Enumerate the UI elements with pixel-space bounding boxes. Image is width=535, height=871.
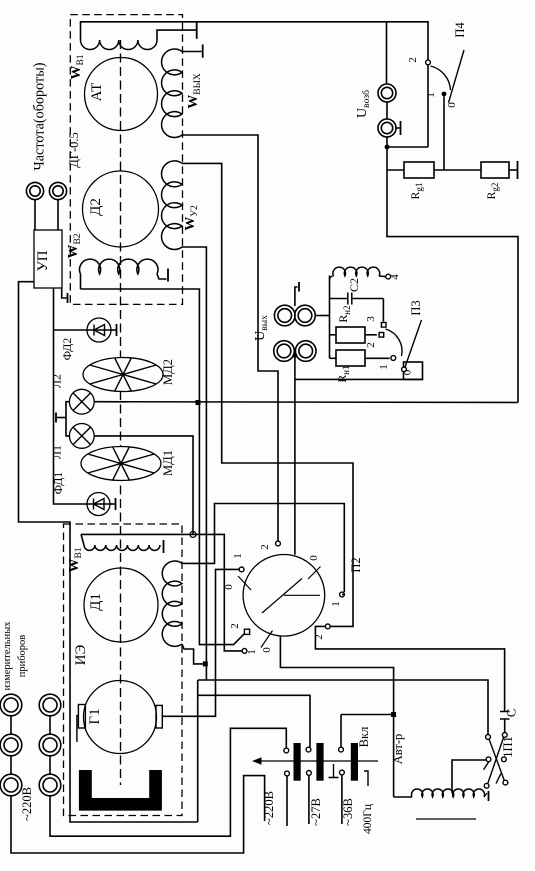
- svg-text:~220В: ~220В: [20, 787, 34, 821]
- wire branch to 27V winding top lead: [198, 695, 310, 747]
- terminal Uvozb top: [378, 84, 396, 102]
- wire FD1 cathode lead: [110, 503, 115, 505]
- wire bus to switch P1 contact: [198, 680, 488, 734]
- contact 1 of P4 (pivot): [442, 92, 447, 97]
- wire meter col2 to 220V winding top: [50, 728, 286, 836]
- dashed enclosure IE: [64, 524, 183, 816]
- switch P2 rotor marks: [262, 579, 302, 614]
- machine G1 tachogenerator: [84, 681, 157, 754]
- wire V2: W_B2 to P2 lower-left contact 2: [81, 289, 245, 645]
- wire meter col1 link a: [10, 716, 12, 734]
- switch P1 short stroke a: [484, 761, 490, 770]
- winding of D1 armature: [162, 561, 182, 646]
- junction L2 wire / V2: [196, 400, 201, 405]
- wire load return bus y379: [295, 378, 423, 380]
- wire bus to Rn1: [330, 357, 337, 359]
- switch P4 wiper: [449, 50, 465, 103]
- contact 4 of P3: [386, 274, 391, 279]
- wire 36V bottom stub: [341, 775, 343, 824]
- transformer winding 36V: [351, 743, 358, 781]
- switch P2 body circle: [243, 555, 325, 637]
- wire lamp ground stub: [57, 417, 66, 419]
- brush holder bracket: [77, 716, 79, 743]
- terminal Uvyh bottom right: [295, 341, 316, 362]
- wire Uvyh ground stub: [295, 287, 298, 306]
- wire choke to contact 4: [379, 275, 386, 278]
- wire terminal1 to UP: [34, 200, 36, 230]
- contact 1 of P3: [391, 356, 396, 361]
- wire A: W_vyh bottom to P2 contact 2 top: [182, 135, 278, 541]
- terminal Uvyh bottom left: [274, 341, 295, 362]
- modulator disc MD2: [83, 358, 163, 392]
- wire top bus to Uvozb top: [386, 22, 388, 84]
- svg-text:2: 2: [407, 57, 419, 63]
- wire autotransformer tap to P1 middle contact: [452, 760, 487, 793]
- lamp L2: [69, 389, 94, 414]
- wire Uvozb ground stub: [396, 127, 400, 129]
- wire UP left to bottom bus 822: [19, 282, 198, 822]
- wire Rg1 to Rg2: [434, 169, 481, 171]
- wire meter col1 to mains plug: [11, 776, 265, 853]
- contact P1 middle-left: [486, 757, 491, 762]
- terminal bar FD2 cathode: [116, 324, 118, 336]
- wire W_B1 right end: [157, 30, 197, 40]
- switch P4 travel arc: [431, 66, 451, 90]
- contact P1 top-left: [486, 735, 491, 740]
- wire W_B1 top bus to P4 contact 2: [81, 22, 429, 60]
- winding W_u2: [162, 161, 182, 250]
- permanent magnet stator of IE: [79, 770, 162, 811]
- terminal bar Uvozb: [400, 121, 402, 135]
- svg-text:С: С: [505, 709, 519, 717]
- terminal bar Rg2 end: [517, 161, 519, 179]
- svg-text:~220В: ~220В: [262, 791, 276, 825]
- wire Rg bus left: [387, 169, 404, 171]
- terminal meter 2-2: [39, 734, 61, 756]
- wire W_B2 right end: [157, 274, 167, 279]
- machine AT (autotransformer rotor): [85, 58, 158, 131]
- machine D2: [83, 171, 159, 247]
- shaft center line (dash-dot): [120, 40, 122, 785]
- stroke position 0 upper-right of P2: [308, 567, 321, 580]
- svg-text:3: 3: [365, 316, 377, 322]
- photodiode FD1: [87, 493, 110, 516]
- wire W_u2 top to P2 right contact 2: [182, 163, 353, 626]
- ground bar lamps: [55, 413, 57, 423]
- contact P1 bottom-left: [484, 783, 489, 788]
- wire meter col2 link a: [49, 716, 51, 734]
- wire Uvozb minus big loop right side: [387, 137, 518, 403]
- svg-text:4: 4: [389, 274, 401, 280]
- wire W_vyh top end: [182, 51, 202, 53]
- svg-text:ДГ-0.5: ДГ-0.5: [67, 132, 81, 168]
- wire Rn1 to contact 1: [365, 357, 390, 359]
- switch P1 short stroke b: [496, 774, 501, 784]
- svg-text:ФД1: ФД1: [51, 472, 65, 495]
- lead 36V top: [339, 747, 344, 752]
- contact 0 of P3: [402, 367, 407, 372]
- svg-text:АТ: АТ: [89, 83, 105, 102]
- svg-text:1: 1: [378, 364, 390, 370]
- wire P4 pivot to Rg bus: [443, 97, 445, 171]
- svg-text:П2: П2: [349, 557, 363, 572]
- svg-text:Авт-р: Авт-р: [391, 734, 405, 765]
- svg-text:измерительных: измерительных: [2, 621, 13, 691]
- wire C to P1 contact: [504, 719, 506, 732]
- svg-text:~36В: ~36В: [341, 798, 355, 826]
- winding W_vyh: [162, 49, 182, 137]
- transformer winding 27V: [316, 743, 323, 781]
- lead 220V top: [284, 748, 289, 753]
- wire G1 right brush to P2 left contact 1: [162, 569, 239, 716]
- wire lamp common bracket: [66, 402, 69, 436]
- svg-text:0: 0: [308, 555, 320, 561]
- wire D1 coil bottom to junction: [182, 644, 203, 664]
- junction Uvyh bottom terminals: [293, 353, 298, 358]
- resistor Rn1: [336, 350, 365, 366]
- wire FD2 cathode lead: [111, 329, 116, 331]
- lead 36V bottom: [340, 770, 345, 775]
- lamp L1: [69, 424, 94, 449]
- brush right of G1: [156, 705, 162, 728]
- wire P2 contact 2 to capacitor C: [315, 626, 504, 711]
- contact P1 middle-right: [502, 757, 507, 762]
- wire meter col2 link b: [49, 756, 51, 774]
- terminal bar W_vyh end: [202, 45, 204, 58]
- wire C2 to contact 3: [352, 298, 384, 300]
- ground bar Uvyh: [298, 282, 300, 292]
- winding W_B2 of DG-0.5: [80, 259, 158, 274]
- capacitor C2: [347, 293, 349, 305]
- contact 1 left of P2: [239, 567, 244, 572]
- contact 2 of P4: [426, 60, 431, 65]
- svg-text:~27В: ~27В: [309, 798, 323, 826]
- lead 220V bottom: [285, 771, 290, 776]
- svg-text:Г1: Г1: [87, 708, 103, 724]
- wire meter col1 link b: [10, 756, 12, 774]
- svg-text:0: 0: [446, 102, 458, 108]
- svg-text:0: 0: [402, 369, 414, 375]
- wire W_B2 left end down: [80, 274, 82, 289]
- wire branch to FD2 anode: [54, 329, 88, 331]
- contact 3 of P3: [381, 323, 386, 328]
- winding W_B1 of IE: [84, 545, 160, 550]
- svg-text:Л1: Л1: [50, 445, 64, 459]
- svg-text:УП: УП: [35, 250, 51, 271]
- svg-text:1: 1: [232, 553, 244, 559]
- svg-text:МД2: МД2: [161, 359, 175, 385]
- terminal bar IE W_B1 end: [163, 540, 165, 553]
- wire L1 right to V1 down: [94, 436, 193, 535]
- svg-text:2: 2: [229, 623, 241, 629]
- terminal meter 1-1: [0, 694, 22, 716]
- resistor Rg2: [481, 162, 509, 178]
- lead 27V top: [306, 747, 311, 752]
- wire 36V top to Vkl junction: [340, 715, 342, 748]
- terminal bar W_B1 end: [196, 22, 198, 39]
- capacitor C: [500, 711, 510, 713]
- terminal frequency 2: [49, 182, 66, 199]
- wire D1 coil top to P2 right contact 1: [182, 504, 344, 593]
- terminal bar FD1 cathode: [115, 498, 117, 510]
- wire P2 rotor bottom to autotransformer: [280, 636, 393, 798]
- svg-text:приборов: приборов: [17, 635, 28, 678]
- svg-text:МД1: МД1: [161, 450, 175, 476]
- svg-text:ИЭ: ИЭ: [73, 645, 89, 666]
- wire Uvyh top right to load bus: [315, 315, 329, 317]
- svg-text:С2: С2: [347, 278, 361, 292]
- wire to C2: [330, 298, 348, 300]
- svg-text:1: 1: [330, 601, 342, 607]
- autotransformer core line: [416, 818, 476, 820]
- box around P3 contact 0: [404, 362, 423, 379]
- contact 2 lower right of P2: [325, 624, 330, 629]
- junction Uvozb minus: [385, 145, 390, 150]
- svg-text:1: 1: [246, 649, 258, 655]
- wire Rn2 to contact 2: [365, 334, 377, 336]
- svg-text:Д1: Д1: [88, 593, 104, 611]
- contact 1 lower left of P2: [242, 649, 247, 654]
- wire 220V bottom stub: [286, 776, 288, 826]
- contact 2 top of P2: [276, 541, 281, 546]
- stroke position 0 bottom of P2: [261, 631, 273, 648]
- contact P1 bottom-right: [503, 780, 508, 785]
- terminal meter 2-3: [39, 774, 61, 796]
- svg-text:Частота(обороты): Частота(обороты): [32, 62, 48, 170]
- wire coil hook to top wire: [81, 534, 84, 545]
- contact 2 of P3: [379, 333, 384, 338]
- svg-text:Вкл: Вкл: [357, 727, 371, 748]
- modulator disc MD1: [81, 447, 161, 481]
- svg-text:2: 2: [259, 544, 271, 550]
- brush left of G1: [78, 705, 85, 729]
- contact 1 right of P2: [340, 592, 345, 597]
- svg-text:П3: П3: [409, 300, 423, 315]
- svg-text:0: 0: [223, 584, 235, 590]
- ground tick 27V/36V: [333, 764, 335, 777]
- lead 27V bottom: [307, 771, 312, 776]
- transformer winding 220V: [294, 743, 301, 781]
- switch P1 blade b: [488, 737, 504, 784]
- terminal bar UP chassis: [67, 293, 69, 303]
- svg-text:Л2: Л2: [50, 374, 64, 388]
- svg-text:0: 0: [261, 647, 273, 653]
- wire UP bottom to photodiode FD1 anode: [54, 288, 88, 504]
- wire between Uvozb terminals: [386, 102, 388, 119]
- stroke position 0 upper-left of P2: [238, 576, 251, 590]
- junction D1 bottom / V3: [203, 661, 208, 666]
- autotransformer right end hook: [484, 793, 487, 797]
- wire to junction Vkl: [341, 714, 394, 716]
- dashed enclosure DG-0.5: [70, 15, 182, 305]
- resistor Rg1: [404, 162, 434, 178]
- lead hook 400Hz: [364, 771, 368, 786]
- wire up to P4 contact 2: [427, 65, 429, 147]
- wire terminal2 to UP: [57, 200, 59, 230]
- inductor choke near C2: [333, 267, 380, 276]
- svg-text:П4: П4: [453, 22, 467, 38]
- wire load network left bus: [329, 276, 331, 359]
- contact 2 lower left of P2: [244, 629, 249, 634]
- terminal meter 2-1: [39, 694, 61, 716]
- transformer core line with arrow: [258, 760, 378, 762]
- wire vertical from bus822 to bus680: [197, 680, 199, 822]
- svg-text:2: 2: [365, 342, 377, 348]
- terminal Uvyh top right: [295, 305, 316, 326]
- switch P3 arc: [386, 329, 403, 356]
- terminal Uvozb bottom: [378, 119, 396, 137]
- svg-text:400Гц: 400Гц: [362, 804, 374, 834]
- svg-text:ФД2: ФД2: [60, 338, 74, 361]
- wire junction to P4 contact 2 branch: [387, 146, 428, 148]
- wire L2 to big loop (y402): [94, 401, 518, 404]
- photodiode FD2: [87, 318, 111, 342]
- svg-text:1П1: 1П1: [501, 736, 515, 758]
- terminal frequency 1: [26, 182, 43, 199]
- terminal bar autotransformer end: [488, 791, 490, 801]
- wire Uvyh bottom to P2 rotor: [294, 355, 296, 554]
- wire Rg2 right: [509, 169, 517, 171]
- contact P1 top-right: [502, 733, 507, 738]
- terminal meter 1-2: [0, 734, 22, 756]
- wire bus to Rn2: [330, 334, 337, 336]
- wire W_u2 bottom: vertical V3 to bus680: [182, 247, 206, 680]
- switch P3 wiper: [405, 320, 422, 369]
- wire IE W_B1 top bus to P2 lower-left contact 1: [81, 534, 242, 651]
- junction circle V1 / IE winding wire: [190, 531, 196, 537]
- wire to autotransformer left end: [394, 796, 412, 798]
- block UP (amplifier): [34, 230, 62, 288]
- autotransformer winding Avt-r: [411, 789, 484, 797]
- machine D1: [84, 568, 158, 642]
- switch P1 blade a: [489, 739, 504, 781]
- wire contact 1 stub: [342, 594, 344, 596]
- junction Vkl: [391, 712, 396, 717]
- terminal meter 1-3: [0, 774, 22, 796]
- winding W_B1 of DG-0.5: [81, 40, 157, 50]
- terminal Uvyh top left: [274, 305, 295, 326]
- svg-text:Д2: Д2: [88, 198, 104, 216]
- resistor Rn2: [336, 327, 365, 343]
- wire 27V bottom stub: [308, 775, 310, 824]
- terminal bar W_B2 end: [167, 269, 169, 282]
- wire UP chassis stub: [62, 288, 67, 298]
- svg-text:1: 1: [425, 92, 437, 98]
